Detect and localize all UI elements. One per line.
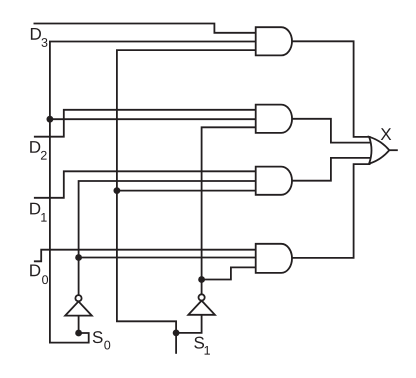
op-amp / AND gate G1 (D3 term) bbox=[256, 27, 292, 55]
inverter right bubble bbox=[199, 294, 205, 300]
wire NOT-S0 branch to gate4 input 2 bbox=[79, 257, 256, 259]
wire D2 net (input D2 to AND gate 2 input 1) bbox=[34, 110, 256, 137]
inverter right (S1) triangle bbox=[188, 301, 215, 315]
wire S1 net (riser x=117 feeding gate1 in3, gate3 in3) bbox=[117, 50, 256, 333]
inverter left bubble bbox=[75, 295, 81, 301]
wire NOT-S0 net (left inverter output riser to gate3 in2) bbox=[79, 181, 256, 295]
junction dot S1 input bbox=[173, 330, 180, 337]
node label S1 bbox=[194, 337, 204, 349]
junction dot S0 riser / gate2 branch bbox=[47, 116, 54, 123]
junction dot NOT-S1 / gate4 jog bbox=[198, 276, 205, 283]
node label X (output) bbox=[381, 128, 392, 140]
junction dot NOT-S0 / gate4 branch bbox=[75, 254, 82, 261]
node label D3 bbox=[31, 28, 41, 40]
junction dot left inverter input bbox=[75, 330, 82, 337]
wire OR output X bbox=[389, 149, 398, 151]
AND gate G4 (D0 term) bbox=[256, 244, 292, 273]
wire D3 net (input D3 to AND gate 1 input 1) bbox=[34, 24, 256, 33]
OR gate U5 (output X) bbox=[369, 137, 389, 164]
wire S1 input stub below junction bbox=[175, 333, 177, 354]
wire NOT-S1 net (right inverter output riser to gate2 in3) bbox=[202, 127, 256, 294]
wire S1 junction to right inverter input bbox=[176, 315, 202, 333]
node label D2 bbox=[30, 141, 40, 153]
node label S0 bbox=[93, 331, 103, 343]
wire gate3 output to OR input 3 bbox=[292, 158, 372, 181]
wire S0 net (S0 riser x=50 feeding gate1 in2 and gate2 in2) bbox=[50, 42, 256, 343]
wire S1 branch to gate3 input 3 bbox=[117, 190, 256, 192]
wire S0 branch to gate2 input 2 bbox=[50, 118, 256, 120]
wire gate4 output to OR input 4 bbox=[292, 164, 371, 258]
wire gate2 output to OR input 2 bbox=[292, 119, 372, 143]
junction dot S1 riser / gate3 branch bbox=[114, 187, 121, 194]
wire NOT-S1 branch jog to gate4 input 3 bbox=[202, 267, 256, 279]
wire D0 net (input D0 to AND gate 4 input 1) bbox=[34, 250, 256, 262]
node label D1 bbox=[30, 203, 40, 215]
AND gate G3 (D1 term) bbox=[256, 167, 292, 195]
wire left inverter input stub bbox=[78, 316, 80, 333]
wire D1 net (input D1 to AND gate 3 input 1) bbox=[34, 171, 256, 198]
wire gate1 output to OR input 1 bbox=[292, 41, 371, 137]
AND gate G2 (D2 term) bbox=[256, 105, 292, 133]
inverter left (S0) triangle bbox=[65, 301, 92, 315]
node label D0 bbox=[30, 265, 40, 277]
